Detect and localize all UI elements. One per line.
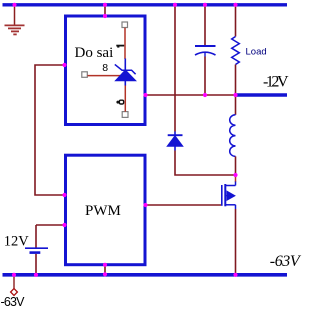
wire diode anode to switch node xyxy=(175,151,236,176)
inductor L1 xyxy=(230,115,236,157)
battery BT1 12V xyxy=(25,225,48,273)
pin 7 wire xyxy=(124,28,126,59)
svg-text:-63V: -63V xyxy=(270,253,302,270)
label Do sai xyxy=(75,45,114,61)
pin 8 terminal square xyxy=(82,72,88,78)
svg-text:-63V: -63V xyxy=(1,295,26,309)
pin 6 terminal square xyxy=(122,112,128,118)
label -12V xyxy=(263,74,289,91)
svg-text:12V: 12V xyxy=(4,234,30,250)
wire battery to PWM xyxy=(36,224,64,226)
ground xyxy=(5,6,25,34)
junction -12V rail start xyxy=(233,93,237,97)
junction switch node xyxy=(233,173,237,177)
wire U1 left to PWM left xyxy=(35,65,64,195)
wire capacitor top lead xyxy=(204,7,206,46)
transistor Q1 MOSFET xyxy=(222,182,236,210)
wire U1 right to -12V rail xyxy=(147,94,234,96)
junction U1 left edge xyxy=(62,63,66,67)
pin 7 terminal square xyxy=(122,22,128,28)
pin 7 number (rotated) xyxy=(116,45,124,48)
op-amp U2 PWM box xyxy=(66,155,146,265)
resistor Load xyxy=(232,37,240,65)
zener/TL431 symbol inside U1 xyxy=(115,59,136,86)
net -12V middle power rail xyxy=(236,93,288,97)
wire inductor top lead xyxy=(235,97,237,115)
label -63V right xyxy=(270,253,302,270)
svg-text:-12V: -12V xyxy=(263,74,289,91)
wire U1 top stub xyxy=(104,7,106,16)
label 12V xyxy=(4,234,30,250)
wire PWM output to gate xyxy=(147,204,221,206)
net -63V bottom power rail xyxy=(3,273,288,277)
net GND top power rail xyxy=(3,3,288,6)
port -63V diamond xyxy=(11,289,18,296)
junction dots on bottom rail xyxy=(12,273,238,277)
label -63V left xyxy=(1,295,26,309)
wire capacitor bottom lead xyxy=(204,57,206,96)
wire load bottom lead xyxy=(235,65,237,94)
junction PWM left edges xyxy=(62,193,66,227)
svg-text:8: 8 xyxy=(102,62,108,74)
label PWM xyxy=(85,203,121,219)
op-amp U1 Do sai box xyxy=(66,16,146,125)
wire inductor bottom lead xyxy=(235,156,237,175)
wire PWM bottom stub xyxy=(104,266,106,273)
svg-text:Do sai: Do sai xyxy=(75,45,114,61)
diode D1 xyxy=(167,132,183,151)
junction PWM right edge xyxy=(143,203,147,207)
capacitor C1 xyxy=(195,46,216,57)
wire diode branch from top rail xyxy=(174,7,176,132)
junction capacitor to -12V wire xyxy=(203,93,207,97)
junction PWM bottom edge xyxy=(103,263,107,277)
wire load top lead xyxy=(235,7,237,37)
label Load xyxy=(246,47,267,58)
svg-text:Load: Load xyxy=(246,47,267,58)
pin 8 wire xyxy=(88,75,121,77)
junction U1 top edge xyxy=(103,14,107,18)
junction dots on top rail xyxy=(12,3,237,7)
wire drain lead xyxy=(235,175,237,182)
pin 8 number xyxy=(102,62,108,74)
svg-text:PWM: PWM xyxy=(85,203,121,219)
wire source to -63V rail xyxy=(235,209,237,273)
pin 6 number (rotated) xyxy=(116,100,123,104)
wire -63V port stub xyxy=(13,277,15,290)
pin 6 wire xyxy=(124,85,126,112)
junction U1 right edge xyxy=(143,93,147,97)
